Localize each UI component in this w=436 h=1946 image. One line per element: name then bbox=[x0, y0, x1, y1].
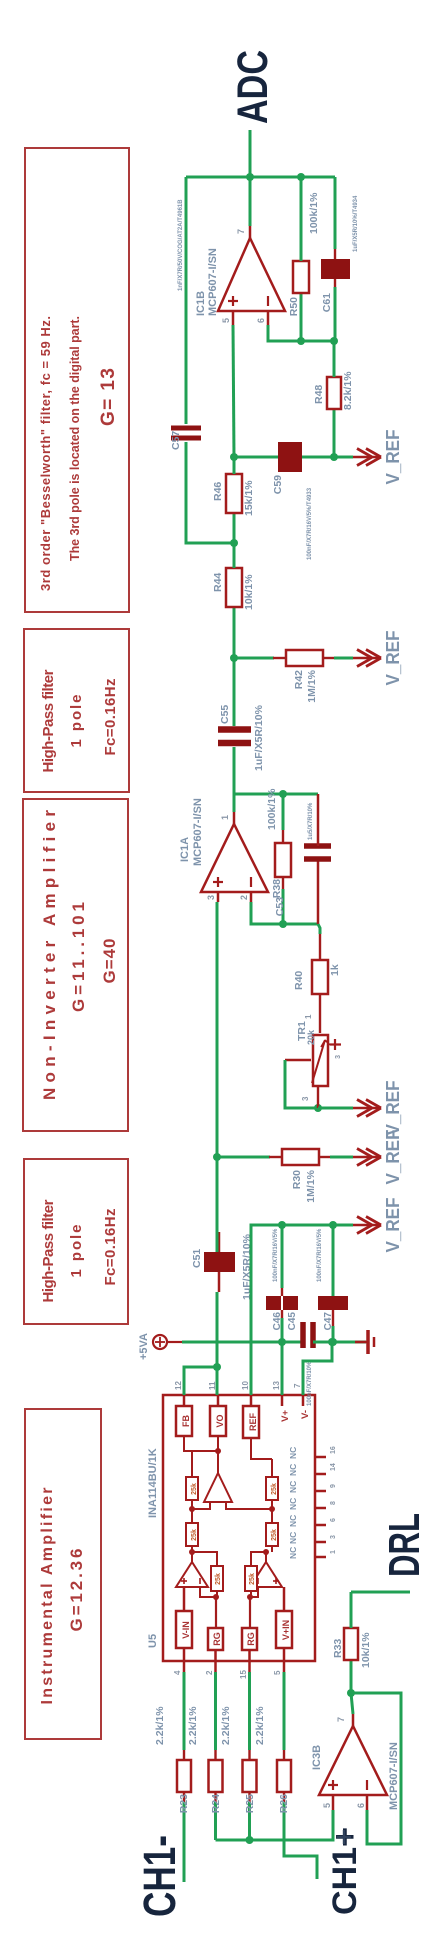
svg-text:G=11..101: G=11..101 bbox=[69, 902, 88, 1012]
svg-text:NC: NC bbox=[288, 1498, 298, 1510]
capacitor C59 bbox=[234, 442, 353, 560]
svg-text:High-Pass filter: High-Pass filter bbox=[40, 669, 57, 772]
svg-text:R46: R46 bbox=[212, 482, 224, 501]
wire C48 to ground bbox=[313, 1338, 366, 1346]
svg-text:NC: NC bbox=[288, 1481, 298, 1493]
wire IC1A -input to feedback rail bbox=[251, 902, 318, 928]
wire RG common to IC3B +input bbox=[216, 1810, 334, 1844]
svg-text:1 pole: 1 pole bbox=[68, 695, 85, 748]
svg-text:9: 9 bbox=[330, 1484, 337, 1488]
internal 25k resistor ladder top bbox=[186, 1451, 198, 1552]
svg-text:Fc=0.16Hz: Fc=0.16Hz bbox=[102, 1209, 119, 1286]
capacitor C46 bbox=[266, 1296, 283, 1330]
svg-text:2.2k/1%: 2.2k/1% bbox=[220, 1706, 232, 1745]
svg-text:MCP607-I/SN: MCP607-I/SN bbox=[388, 1742, 400, 1810]
resistor R33 bbox=[332, 1592, 372, 1693]
internal A2 feedback resistor bbox=[245, 1549, 269, 1600]
pin 12 FB bbox=[174, 1381, 192, 1436]
svg-text:6: 6 bbox=[356, 1803, 366, 1808]
svg-text:C45: C45 bbox=[287, 1312, 298, 1331]
svg-text:V_REF: V_REF bbox=[383, 631, 403, 686]
svg-text:5: 5 bbox=[322, 1803, 332, 1808]
svg-text:7: 7 bbox=[293, 1383, 302, 1388]
svg-text:R38: R38 bbox=[271, 879, 283, 898]
wire TR1 wiper bbox=[285, 1060, 322, 1112]
resistor R40 bbox=[293, 934, 341, 1033]
wire node to R30 bbox=[217, 1156, 270, 1159]
svg-text:1M/1%: 1M/1% bbox=[306, 669, 318, 702]
svg-text:MCP607-I/SN: MCP607-I/SN bbox=[207, 248, 219, 316]
svg-text:3: 3 bbox=[206, 895, 216, 900]
wire ADC stub bbox=[249, 130, 252, 177]
supply +5VA symbol bbox=[138, 1333, 301, 1360]
capacitor C51 bbox=[191, 1232, 253, 1300]
svg-text:C61: C61 bbox=[321, 293, 333, 312]
capacitor C48 inline on supply bbox=[303, 1322, 313, 1406]
wire pin13 V+ to +5VA bbox=[281, 1342, 284, 1395]
op-amp IC3B bbox=[311, 1714, 400, 1810]
svg-text:V-IN: V-IN bbox=[181, 1621, 191, 1639]
svg-text:R24: R24 bbox=[210, 1794, 222, 1813]
svg-text:IC1A: IC1A bbox=[179, 837, 191, 862]
svg-text:The 3rd pole is located on the: The 3rd pole is located on the digital p… bbox=[68, 316, 82, 561]
supply arrow V_REF (decoupling rail) bbox=[353, 1198, 403, 1253]
svg-text:100nF/X7R/16V/5%: 100nF/X7R/16V/5% bbox=[317, 1228, 323, 1282]
svg-text:8: 8 bbox=[330, 1501, 337, 1505]
svg-text:C53: C53 bbox=[274, 897, 286, 916]
svg-text:100nF/X7R/16V/5%/T4933: 100nF/X7R/16V/5%/T4933 bbox=[307, 487, 313, 560]
svg-text:1uF/X5R/10%/T4934: 1uF/X5R/10%/T4934 bbox=[353, 195, 359, 252]
svg-text:4: 4 bbox=[173, 1670, 182, 1675]
capacitor C47 bbox=[317, 1221, 348, 1330]
wire IC3B feedback loop bbox=[351, 1693, 401, 1844]
wire DRL stub bbox=[351, 1591, 410, 1594]
svg-text:RG: RG bbox=[246, 1632, 256, 1646]
resistor R23 bbox=[154, 1672, 191, 1813]
svg-text:INA114BU/1K: INA114BU/1K bbox=[147, 1448, 159, 1518]
title box: High-Pass filter (second) bbox=[24, 629, 129, 792]
wire node A to IC1B +input bbox=[230, 325, 238, 461]
wire C46 C45 left to +5VA bbox=[281, 1310, 284, 1342]
resistor R38 bbox=[266, 788, 291, 924]
svg-text:G= 13: G= 13 bbox=[98, 368, 119, 426]
pin NC #7 bbox=[288, 1446, 337, 1459]
svg-text:8.2k/1%: 8.2k/1% bbox=[342, 371, 354, 410]
wire node B bbox=[230, 513, 238, 547]
wire pin12 FB to VO net bbox=[184, 1363, 221, 1395]
pin NC #1 bbox=[288, 1547, 337, 1559]
capacitor C45 bbox=[283, 1296, 298, 1330]
svg-text:1u5/X7R/10%: 1u5/X7R/10% bbox=[308, 802, 314, 840]
svg-text:100nF/X7R/16V/5%: 100nF/X7R/16V/5% bbox=[273, 1228, 279, 1282]
svg-text:1: 1 bbox=[220, 815, 230, 820]
svg-text:25k: 25k bbox=[215, 1573, 222, 1585]
svg-text:C59: C59 bbox=[272, 475, 284, 494]
net label ADC bbox=[230, 50, 277, 124]
svg-text:DRL: DRL bbox=[380, 1513, 429, 1577]
svg-text:2: 2 bbox=[239, 895, 249, 900]
svg-text:100nF/X7R/10%: 100nF/X7R/10% bbox=[307, 1361, 313, 1406]
svg-text:V+IN: V+IN bbox=[281, 1620, 291, 1640]
svg-text:10k/1%: 10k/1% bbox=[360, 1632, 372, 1668]
svg-text:V_REF: V_REF bbox=[383, 1130, 403, 1185]
svg-text:R40: R40 bbox=[293, 971, 305, 990]
wire C51 to IC1A +input bbox=[213, 902, 221, 1252]
supply arrow V_REF (TR1) bbox=[353, 1081, 403, 1136]
svg-text:1: 1 bbox=[304, 1014, 313, 1019]
svg-text:25k: 25k bbox=[271, 1483, 278, 1495]
svg-text:13: 13 bbox=[272, 1381, 281, 1390]
svg-text:V+: V+ bbox=[280, 1410, 291, 1422]
trimmer TR1 bbox=[296, 1014, 342, 1101]
svg-text:High-Pass filter: High-Pass filter bbox=[40, 1199, 57, 1302]
resistor R24 bbox=[187, 1672, 223, 1840]
wire pin7 V- to ground net bbox=[303, 1342, 332, 1395]
internal op-amp A3 bbox=[192, 1473, 272, 1509]
wire pin11 VO to C51 bbox=[216, 1292, 219, 1395]
wire C46 C45 right to V_REF rail bbox=[273, 1221, 286, 1296]
output rail bbox=[186, 173, 335, 181]
svg-text:VO: VO bbox=[215, 1414, 225, 1427]
internal A1 feedback resistor bbox=[189, 1549, 223, 1600]
resistor R25 bbox=[220, 1672, 257, 1840]
svg-text:V_REF: V_REF bbox=[383, 1198, 403, 1253]
title box: Instrumental Amplifier bbox=[25, 1409, 101, 1739]
wire IC1B -input feedback node bbox=[268, 325, 338, 345]
svg-text:2: 2 bbox=[205, 1670, 214, 1675]
svg-text:V_REF: V_REF bbox=[383, 1081, 403, 1136]
svg-text:Non-Inverter Amplifier: Non-Inverter Amplifier bbox=[40, 810, 59, 1100]
svg-text:10: 10 bbox=[241, 1381, 250, 1390]
svg-text:3: 3 bbox=[335, 1055, 342, 1059]
capacitor C53 bbox=[274, 794, 331, 924]
svg-text:C55: C55 bbox=[219, 705, 231, 724]
op-amp IC1B bbox=[195, 226, 285, 325]
wire IC1B output to rail bbox=[249, 177, 252, 226]
wire IC3B output node bbox=[347, 1689, 355, 1714]
pin 15 RG bbox=[239, 1597, 257, 1679]
svg-text:C57: C57 bbox=[170, 431, 182, 450]
svg-text:25k: 25k bbox=[191, 1529, 198, 1541]
svg-text:R33: R33 bbox=[332, 1639, 344, 1658]
svg-text:1k: 1k bbox=[329, 964, 341, 976]
svg-text:1uF/X5R/10%: 1uF/X5R/10% bbox=[253, 704, 265, 771]
internal 25k resistor ladder bottom bbox=[266, 1459, 278, 1552]
pin 11 VO bbox=[208, 1381, 226, 1436]
pin NC #3 bbox=[288, 1515, 337, 1527]
svg-text:25k: 25k bbox=[249, 1573, 256, 1585]
svg-text:Instrumental Amplifier: Instrumental Amplifier bbox=[39, 1488, 56, 1705]
net label DRL bbox=[380, 1513, 429, 1577]
pin NC #6 bbox=[288, 1463, 337, 1476]
svg-text:7: 7 bbox=[236, 229, 246, 234]
ground symbol bbox=[355, 1330, 374, 1354]
svg-text:3: 3 bbox=[301, 1096, 310, 1101]
svg-text:1: 1 bbox=[330, 1550, 337, 1554]
internal REF wire bbox=[251, 1438, 272, 1459]
svg-text:5: 5 bbox=[273, 1670, 282, 1675]
capacitor C57 bbox=[170, 177, 234, 543]
pin NC #5 bbox=[288, 1481, 337, 1493]
svg-text:CH1-: CH1- bbox=[134, 1835, 185, 1917]
svg-text:R48: R48 bbox=[313, 385, 325, 404]
svg-text:1 pole: 1 pole bbox=[68, 1225, 85, 1278]
pin NC #4 bbox=[288, 1498, 337, 1510]
svg-text:R26: R26 bbox=[278, 1794, 290, 1813]
pin 5 V+IN bbox=[273, 1587, 292, 1675]
svg-text:Fc=0.16Hz: Fc=0.16Hz bbox=[102, 679, 119, 756]
svg-text:IC3B: IC3B bbox=[311, 1745, 323, 1770]
svg-text:2.2k/1%: 2.2k/1% bbox=[154, 1706, 166, 1745]
svg-text:7: 7 bbox=[336, 1717, 346, 1722]
supply arrow V_REF (R42) bbox=[353, 631, 403, 686]
svg-text:15: 15 bbox=[239, 1670, 248, 1679]
svg-text:25k: 25k bbox=[191, 1483, 198, 1495]
wire TR1 pin3 bbox=[318, 1086, 353, 1108]
junction pin13 on +5VA bbox=[278, 1338, 286, 1346]
internal op-amp A2 bbox=[250, 1562, 282, 1587]
svg-text:100k/1%: 100k/1% bbox=[308, 192, 320, 234]
svg-text:G=12.36: G=12.36 bbox=[67, 1549, 86, 1632]
resistor R48 bbox=[313, 341, 354, 457]
svg-text:V-: V- bbox=[300, 1410, 311, 1419]
resistor R44 bbox=[212, 543, 255, 658]
svg-text:NC: NC bbox=[288, 1532, 298, 1544]
resistor R30 bbox=[269, 1149, 353, 1203]
svg-text:R44: R44 bbox=[212, 573, 224, 592]
svg-text:C51: C51 bbox=[191, 1249, 203, 1268]
svg-text:FB: FB bbox=[181, 1415, 191, 1427]
svg-text:MCP607-I/SN: MCP607-I/SN bbox=[192, 798, 204, 866]
svg-text:14: 14 bbox=[330, 1463, 337, 1471]
svg-text:100k/1%: 100k/1% bbox=[266, 788, 278, 830]
wire CH1- to R23 bbox=[183, 1792, 186, 1882]
svg-text:1nF/X7R/50V/COG/AT2A/T4961B: 1nF/X7R/50V/COG/AT2A/T4961B bbox=[178, 199, 184, 291]
svg-text:6: 6 bbox=[256, 318, 266, 323]
resistor R50 bbox=[288, 177, 320, 341]
pin NC #2 bbox=[288, 1532, 337, 1544]
svg-text:R30: R30 bbox=[291, 1170, 303, 1189]
svg-text:+5VA: +5VA bbox=[138, 1333, 150, 1360]
resistor R26 bbox=[254, 1672, 291, 1813]
pin 2 RG bbox=[205, 1597, 223, 1675]
svg-text:G=40: G=40 bbox=[100, 939, 119, 984]
svg-text:3: 3 bbox=[330, 1535, 337, 1539]
svg-text:15k/1%: 15k/1% bbox=[243, 480, 255, 516]
wire C47 to ground net bbox=[329, 1326, 337, 1346]
svg-text:REF: REF bbox=[248, 1412, 258, 1431]
net label CH1+ bbox=[326, 1827, 364, 1915]
svg-text:NC: NC bbox=[288, 1464, 298, 1476]
capacitor C55 bbox=[218, 658, 265, 794]
svg-text:2.2k/1%: 2.2k/1% bbox=[187, 1706, 199, 1745]
title box: Besselworth filter note bbox=[25, 148, 129, 612]
pin 10 REF bbox=[241, 1381, 259, 1438]
svg-text:5: 5 bbox=[221, 318, 231, 323]
svg-text:6: 6 bbox=[330, 1518, 337, 1522]
svg-text:10k/1%: 10k/1% bbox=[243, 574, 255, 610]
net label CH1- bbox=[134, 1835, 185, 1917]
supply arrow V_REF (R30) bbox=[353, 1130, 403, 1185]
svg-text:RG: RG bbox=[212, 1632, 222, 1646]
wire IC1A output to rail bbox=[234, 794, 318, 812]
svg-text:R50: R50 bbox=[288, 297, 300, 316]
wire REF pin to V_REF rail bbox=[251, 1225, 353, 1395]
svg-text:1M/1%: 1M/1% bbox=[305, 1169, 317, 1202]
pin 7 V- bbox=[293, 1383, 311, 1419]
svg-text:NC: NC bbox=[288, 1547, 298, 1559]
wire node C to R42 bbox=[230, 654, 274, 662]
op-amp IC1A bbox=[179, 798, 268, 902]
internal op-amp A1 bbox=[176, 1562, 208, 1587]
svg-text:25k: 25k bbox=[271, 1529, 278, 1541]
internal A3 output wire bbox=[184, 1436, 221, 1473]
svg-text:R25: R25 bbox=[244, 1794, 256, 1813]
svg-text:ADC: ADC bbox=[230, 50, 277, 124]
svg-text:R23: R23 bbox=[178, 1794, 190, 1813]
svg-text:IC1B: IC1B bbox=[195, 291, 207, 316]
svg-text:NC: NC bbox=[288, 1515, 298, 1527]
svg-text:12: 12 bbox=[174, 1381, 183, 1390]
svg-text:NC: NC bbox=[288, 1447, 298, 1459]
svg-text:U5: U5 bbox=[147, 1634, 159, 1648]
resistor R42 bbox=[273, 650, 353, 703]
svg-text:3rd order "Besselworth" filter: 3rd order "Besselworth" filter, fc = 59 … bbox=[38, 316, 53, 591]
capacitor C61 bbox=[321, 177, 359, 341]
supply arrow V_REF (node A) bbox=[353, 430, 403, 485]
pin 4 V-IN bbox=[173, 1587, 192, 1675]
wire feedback to R40 bbox=[318, 924, 320, 934]
svg-text:20k: 20k bbox=[306, 1029, 316, 1045]
wire CH1+ to R26 bbox=[284, 1792, 317, 1879]
resistor R46 bbox=[212, 457, 255, 516]
title box: Non-Inverter Amplifier bbox=[23, 799, 128, 1131]
svg-text:16: 16 bbox=[330, 1446, 337, 1454]
svg-text:V_REF: V_REF bbox=[383, 430, 403, 485]
part origin cross IC3B bbox=[337, 1830, 351, 1844]
pin 13 V+ bbox=[272, 1381, 291, 1422]
IC U5 INA114 body bbox=[147, 1395, 315, 1661]
title box: High-Pass filter (first) bbox=[24, 1159, 128, 1324]
svg-text:R42: R42 bbox=[293, 670, 305, 689]
svg-text:2.2k/1%: 2.2k/1% bbox=[254, 1706, 266, 1745]
